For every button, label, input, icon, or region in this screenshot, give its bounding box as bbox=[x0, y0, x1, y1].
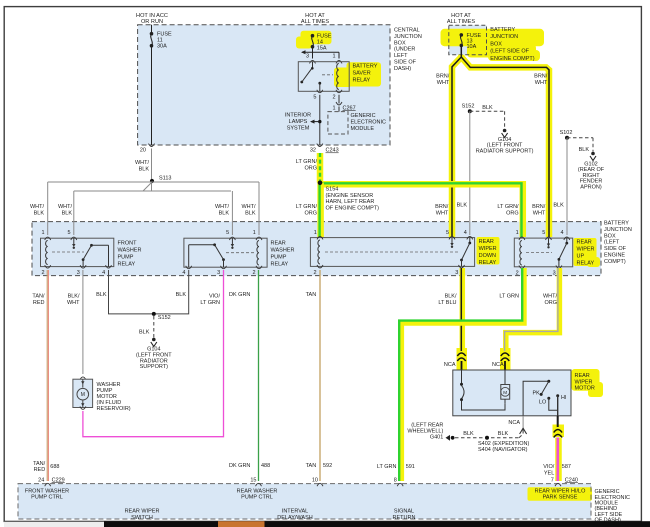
wire BLK dashed S152 to G104 bbox=[470, 110, 505, 112]
svg-text:LT GRN/: LT GRN/ bbox=[296, 204, 318, 210]
splice S154 bbox=[318, 181, 323, 186]
highlight over rear wiper hi/lo park sense label bbox=[528, 487, 593, 501]
wire into motor box (motor feed) bbox=[504, 361, 506, 370]
washer pump motor connector top bbox=[80, 377, 86, 380]
svg-text:S102: S102 bbox=[560, 130, 573, 136]
svg-text:OR RUN: OR RUN bbox=[141, 19, 163, 25]
battery saver relay coil bbox=[337, 64, 339, 90]
wire BLK/WHT front relay pin3 to washer motor bbox=[82, 270, 84, 374]
bottom taskbar black bar bbox=[104, 521, 650, 527]
svg-text:SUPPORT): SUPPORT) bbox=[140, 364, 168, 370]
relay K-rear-wiper-up box bbox=[514, 238, 572, 267]
svg-text:WHT/: WHT/ bbox=[135, 160, 150, 166]
svg-text:(UNDER: (UNDER bbox=[394, 47, 415, 53]
svg-text:RELAY: RELAY bbox=[577, 261, 595, 267]
NCA connector (vio/yel) bbox=[554, 430, 562, 433]
svg-text:UP: UP bbox=[577, 254, 585, 260]
svg-text:LT BLU: LT BLU bbox=[438, 300, 456, 306]
highlight over battery junction box label bbox=[441, 29, 545, 46]
svg-text:PUMP: PUMP bbox=[271, 255, 287, 261]
svg-text:VIO/: VIO/ bbox=[543, 464, 554, 470]
rear washer relay switch blade bbox=[215, 245, 224, 260]
wire LT GRN/ORG highlight (C243 to S154) bbox=[317, 153, 324, 183]
svg-text:C240: C240 bbox=[565, 477, 578, 483]
svg-text:BOX: BOX bbox=[490, 41, 502, 47]
wire fuse 11 to pin 20 bbox=[151, 46, 153, 145]
up relay actuator dashed link bbox=[526, 252, 552, 254]
up relay pin3 lead bbox=[558, 259, 560, 266]
svg-text:BLK: BLK bbox=[34, 210, 45, 216]
battery junction box fuse box fill bbox=[449, 25, 487, 55]
svg-text:592: 592 bbox=[323, 463, 332, 469]
relay K-battery-saver box bbox=[298, 62, 349, 92]
svg-text:BLK: BLK bbox=[482, 105, 493, 111]
relay band box fill bbox=[32, 222, 601, 276]
svg-text:688: 688 bbox=[50, 464, 59, 470]
svg-text:YEL: YEL bbox=[544, 470, 554, 476]
wire BRN/WHT core (right branch) bbox=[461, 57, 549, 237]
svg-text:WIPER: WIPER bbox=[575, 379, 593, 385]
svg-text:DK GRN: DK GRN bbox=[229, 463, 250, 469]
wire WHT/BLK upper branch bbox=[48, 181, 259, 183]
wire BLK/LT BLU highlight bbox=[460, 268, 466, 351]
svg-text:SIDE OF: SIDE OF bbox=[604, 246, 627, 252]
wire VIO/YEL highlight bbox=[555, 438, 562, 482]
svg-text:REAR WIPER HI/LO: REAR WIPER HI/LO bbox=[535, 488, 586, 494]
splice S113 bbox=[150, 179, 154, 183]
svg-text:M: M bbox=[503, 390, 507, 395]
wire rear wiper HI lead bbox=[557, 416, 559, 427]
svg-text:G401: G401 bbox=[430, 435, 443, 441]
svg-text:3: 3 bbox=[455, 270, 458, 276]
svg-text:OF DASH): OF DASH) bbox=[595, 517, 621, 523]
fuse F11 bbox=[150, 32, 154, 36]
wire BLK/LT BLU core bbox=[460, 268, 462, 351]
rear wiper motor M2 box bbox=[453, 370, 571, 416]
rear washer relay pin 3 bbox=[221, 266, 227, 269]
front relay pin 2 bbox=[45, 265, 51, 268]
svg-text:FRONT WASHER: FRONT WASHER bbox=[25, 488, 69, 494]
svg-text:PUMP CTRL: PUMP CTRL bbox=[31, 495, 63, 501]
front relay pin 4 bbox=[106, 265, 112, 268]
svg-text:BRN/: BRN/ bbox=[435, 204, 449, 210]
svg-text:WHT/: WHT/ bbox=[30, 204, 45, 210]
bottom taskbar orange segment bbox=[218, 521, 265, 527]
wire WHT/ORG highlight bbox=[506, 268, 560, 351]
wire WHT/ORG core bbox=[505, 268, 558, 351]
wire WHT/BLK to front relay pin 5 bbox=[73, 191, 75, 235]
svg-text:RADIATOR SUPPORT): RADIATOR SUPPORT) bbox=[476, 148, 534, 154]
svg-text:HOT AT: HOT AT bbox=[451, 13, 471, 19]
battery saver relay com lead bbox=[312, 62, 314, 68]
generic electronic module box (top, dashed) bbox=[328, 112, 348, 134]
svg-text:BLK: BLK bbox=[498, 431, 509, 437]
svg-text:NCA: NCA bbox=[444, 362, 456, 368]
down relay pin 2 bbox=[317, 265, 323, 268]
splice S402/S404 bbox=[485, 436, 489, 440]
svg-text:COMPT): COMPT) bbox=[604, 259, 626, 265]
battery saver relay pin 2 bbox=[336, 90, 342, 93]
svg-text:CENTRAL: CENTRAL bbox=[394, 28, 420, 34]
svg-text:SYSTEM: SYSTEM bbox=[287, 125, 310, 131]
svg-text:BLK: BLK bbox=[139, 329, 150, 335]
highlight over FUSE 14 bbox=[301, 31, 332, 44]
svg-text:ALL TIMES: ALL TIMES bbox=[301, 19, 330, 25]
front relay pin 3 bbox=[80, 265, 86, 268]
relay K-rear-wiper-down box bbox=[310, 238, 474, 267]
wire BLK dashed S102 to G102 bbox=[567, 137, 593, 139]
wire VIO/YEL core bbox=[556, 438, 559, 482]
fuse F13 bbox=[460, 33, 464, 37]
svg-text:ENGINE: ENGINE bbox=[604, 253, 625, 259]
down relay coil bbox=[318, 240, 320, 264]
svg-text:1: 1 bbox=[314, 230, 317, 236]
wire BRN/WHT core (left branch) bbox=[452, 45, 461, 237]
svg-text:LO: LO bbox=[539, 400, 546, 406]
svg-text:BATTERY: BATTERY bbox=[353, 63, 378, 69]
svg-text:TAN/: TAN/ bbox=[32, 294, 45, 300]
svg-text:WHT/: WHT/ bbox=[241, 204, 256, 210]
NCA connector (wht/org) bbox=[501, 353, 509, 356]
svg-text:4: 4 bbox=[464, 230, 467, 236]
svg-text:PK: PK bbox=[532, 391, 540, 397]
wire TAN down relay pin2 to GEM pin10 bbox=[319, 270, 321, 481]
svg-text:(LEFT: (LEFT bbox=[604, 240, 620, 246]
down relay pin4 lead bbox=[469, 238, 471, 243]
svg-text:DELAY/WASH: DELAY/WASH bbox=[277, 515, 312, 521]
svg-text:7: 7 bbox=[551, 477, 554, 483]
down relay pin5 contact feed bbox=[451, 238, 453, 244]
svg-text:10: 10 bbox=[312, 477, 318, 483]
svg-text:1: 1 bbox=[516, 230, 519, 236]
svg-text:HARN, LEFT REAR: HARN, LEFT REAR bbox=[326, 199, 375, 205]
svg-text:BLK/: BLK/ bbox=[445, 294, 457, 300]
wire LT GRN/ORG core to down relay pin1 bbox=[318, 183, 320, 238]
svg-text:DOWN: DOWN bbox=[479, 253, 496, 259]
splice S102 bbox=[565, 136, 569, 140]
highlight on NCA connector of blk/lt blu wire bbox=[457, 348, 468, 370]
relay K-rear-washer box bbox=[184, 238, 267, 267]
svg-text:(ENGINE SENSOR: (ENGINE SENSOR bbox=[326, 193, 374, 199]
svg-text:5: 5 bbox=[226, 230, 229, 236]
motor park contact lower lead bbox=[462, 401, 506, 410]
down relay pin 1 bbox=[317, 237, 323, 240]
wire C267 into GEM bbox=[338, 107, 340, 112]
svg-text:BRN/: BRN/ bbox=[534, 74, 548, 80]
svg-text:488: 488 bbox=[261, 463, 270, 469]
up relay pin4 lead bbox=[566, 238, 568, 243]
svg-text:BLK: BLK bbox=[62, 210, 73, 216]
wire BRN/WHT highlight (left branch) bbox=[452, 55, 461, 237]
washer pump motor leads bbox=[82, 379, 84, 387]
svg-text:2: 2 bbox=[516, 270, 519, 276]
svg-text:LAMPS: LAMPS bbox=[289, 119, 308, 125]
highlight over rear wiper up relay label bbox=[574, 238, 597, 266]
front relay contact to pin 4 bbox=[92, 244, 109, 246]
svg-text:RELAY: RELAY bbox=[271, 262, 289, 268]
svg-text:1: 1 bbox=[253, 230, 256, 236]
generic electronic module box border (bottom) bbox=[18, 484, 591, 519]
svg-text:DK GRN: DK GRN bbox=[229, 292, 250, 298]
svg-text:JUNCTION: JUNCTION bbox=[490, 34, 518, 40]
svg-text:SWITCH: SWITCH bbox=[131, 515, 153, 521]
svg-text:NCA: NCA bbox=[508, 420, 520, 426]
down relay pin 5 bbox=[449, 237, 455, 240]
highlight over rear wiper down relay label bbox=[477, 237, 500, 265]
svg-text:TAN/: TAN/ bbox=[33, 461, 46, 467]
wire LT GRN up relay pin2 to GEM pin8 highlight bbox=[402, 268, 525, 481]
svg-text:BRN/: BRN/ bbox=[436, 74, 450, 80]
wire LT GRN up relay pin2 to GEM pin8 core bbox=[399, 268, 522, 481]
wire BLK S152 to down relay pin 4 bbox=[469, 111, 471, 235]
splice S152 (lower) bbox=[152, 312, 156, 316]
battery saver relay pin 1 bbox=[336, 61, 342, 64]
svg-text:1: 1 bbox=[41, 230, 44, 236]
ground G401 bbox=[446, 435, 451, 441]
svg-text:ORG: ORG bbox=[544, 300, 557, 306]
svg-text:BLK/: BLK/ bbox=[68, 294, 80, 300]
svg-text:LT GRN/: LT GRN/ bbox=[296, 159, 318, 165]
up relay coil bbox=[520, 241, 522, 266]
svg-text:20: 20 bbox=[140, 148, 146, 154]
wire pin5 down to pin 32 bbox=[319, 95, 321, 145]
svg-text:INTERVAL: INTERVAL bbox=[282, 508, 308, 514]
svg-text:ORG: ORG bbox=[304, 165, 317, 171]
relay band box border bbox=[32, 222, 601, 276]
rear washer relay coil bbox=[257, 241, 259, 266]
wire pin2 to C267 bbox=[338, 95, 340, 104]
svg-text:2: 2 bbox=[313, 270, 316, 276]
svg-text:MOTOR: MOTOR bbox=[575, 386, 595, 392]
svg-text:OF ENGINE COMPT): OF ENGINE COMPT) bbox=[326, 205, 380, 211]
wire BLK S102 to up relay pin 4 bbox=[566, 138, 568, 235]
svg-text:5: 5 bbox=[446, 230, 449, 236]
splice S152 (engine harness) bbox=[468, 109, 472, 113]
svg-text:ALL TIMES: ALL TIMES bbox=[447, 19, 476, 25]
relay K-front-washer box bbox=[41, 238, 114, 266]
svg-text:S152: S152 bbox=[158, 315, 171, 321]
svg-text:4: 4 bbox=[561, 230, 564, 236]
svg-text:WIPER: WIPER bbox=[479, 246, 497, 252]
svg-text:WHT: WHT bbox=[533, 210, 546, 216]
svg-text:C243: C243 bbox=[326, 148, 339, 154]
arrow stub left of fuse 14 bbox=[302, 51, 339, 53]
motor HI contact bbox=[556, 394, 559, 397]
battery saver relay switch blade bbox=[300, 81, 303, 84]
svg-text:WHT: WHT bbox=[437, 80, 450, 86]
svg-text:INTERIOR: INTERIOR bbox=[285, 112, 311, 118]
svg-text:PUMP CTRL: PUMP CTRL bbox=[241, 495, 273, 501]
svg-text:S404 (NAVIGATOR): S404 (NAVIGATOR) bbox=[478, 447, 528, 453]
svg-text:SAVER: SAVER bbox=[353, 70, 371, 76]
up relay pin5 contact feed bbox=[548, 238, 550, 244]
wire WHT/BLK to front relay pin 1 bbox=[47, 182, 49, 235]
front relay actuator dashed link bbox=[52, 251, 84, 253]
svg-text:VIO/: VIO/ bbox=[209, 294, 220, 300]
front relay pin 3 lead bbox=[82, 260, 84, 267]
svg-text:S152: S152 bbox=[462, 104, 475, 110]
svg-text:BLK: BLK bbox=[96, 292, 107, 298]
wire WHT/BLK to rear washer relay pin 1 bbox=[258, 182, 260, 235]
wire DK GRN rear washer relay pin2 to GEM pin15 bbox=[258, 270, 260, 481]
up relay pin 3 bbox=[556, 265, 562, 268]
svg-text:HI: HI bbox=[561, 395, 566, 401]
washer pump motor connector bottom bbox=[80, 406, 86, 409]
svg-text:BATTERY: BATTERY bbox=[604, 221, 629, 227]
svg-text:S154: S154 bbox=[326, 187, 339, 193]
svg-text:DASH): DASH) bbox=[394, 66, 411, 72]
svg-text:WHT/: WHT/ bbox=[58, 204, 73, 210]
svg-text:WHT: WHT bbox=[67, 300, 80, 306]
svg-text:5: 5 bbox=[542, 230, 545, 236]
svg-text:10A: 10A bbox=[467, 44, 477, 50]
battery saver relay contact dot bbox=[318, 82, 321, 85]
highlight over rear wiper motor label bbox=[572, 369, 600, 391]
washer pump motor circle bbox=[77, 388, 89, 400]
svg-text:JUNCTION: JUNCTION bbox=[394, 34, 422, 40]
motor switch common lead bbox=[523, 381, 549, 416]
svg-text:LT GRN: LT GRN bbox=[200, 300, 220, 306]
svg-text:RESERVOIR): RESERVOIR) bbox=[97, 406, 131, 412]
wire to battery saver relay pin 1 bbox=[338, 52, 340, 58]
svg-text:BOX: BOX bbox=[604, 233, 616, 239]
svg-text:32: 32 bbox=[310, 148, 316, 154]
svg-text:C229: C229 bbox=[52, 477, 65, 483]
svg-text:LEFT: LEFT bbox=[394, 53, 408, 59]
svg-text:3: 3 bbox=[77, 270, 80, 276]
svg-text:REAR WASHER: REAR WASHER bbox=[237, 488, 278, 494]
svg-text:GENERIC: GENERIC bbox=[351, 113, 376, 119]
svg-text:5: 5 bbox=[67, 230, 70, 236]
svg-text:RED: RED bbox=[34, 467, 46, 473]
svg-text:4: 4 bbox=[182, 270, 185, 276]
wire BRN/WHT highlight (right branch) bbox=[461, 57, 549, 237]
svg-text:ORG: ORG bbox=[304, 210, 317, 216]
svg-text:WASHER: WASHER bbox=[118, 248, 142, 254]
down relay pin 4 bbox=[467, 237, 473, 240]
svg-text:WASHER: WASHER bbox=[271, 248, 295, 254]
svg-text:BLK: BLK bbox=[553, 203, 564, 209]
svg-text:FRONT: FRONT bbox=[118, 241, 138, 247]
svg-text:PUMP: PUMP bbox=[118, 255, 134, 261]
down relay switch blade bbox=[462, 243, 470, 260]
rear washer relay contact from pin 4 bbox=[188, 245, 190, 267]
svg-text:1: 1 bbox=[332, 54, 335, 60]
wire LT GRN/ORG highlight to down relay pin1 bbox=[317, 183, 324, 238]
svg-text:M: M bbox=[81, 392, 85, 398]
front relay coil bbox=[46, 241, 48, 265]
svg-text:30A: 30A bbox=[157, 43, 167, 49]
rear washer relay pin 2 bbox=[256, 266, 262, 269]
wire LT GRN/ORG highlight horizontal bbox=[320, 184, 523, 237]
svg-text:BATTERY: BATTERY bbox=[490, 27, 515, 33]
wire hot-in-acc feed into CJB bbox=[151, 25, 153, 34]
svg-text:WHEELWELL): WHEELWELL) bbox=[407, 428, 443, 434]
rear washer relay actuator dashed link bbox=[226, 252, 254, 254]
wire WHT/BLK pin20 to S113 bbox=[151, 149, 153, 192]
battery saver relay actuator dashed link bbox=[322, 74, 333, 76]
battery junction box fuse box border bbox=[449, 25, 487, 55]
svg-text:2: 2 bbox=[41, 270, 44, 276]
svg-text:PARK SENSE: PARK SENSE bbox=[543, 495, 578, 501]
svg-text:ORG: ORG bbox=[506, 210, 519, 216]
ground G104 (upper right) bbox=[503, 129, 507, 133]
svg-text:S113: S113 bbox=[159, 176, 171, 182]
wire into motor box (left) bbox=[461, 361, 463, 370]
motor switch blade to PK bbox=[541, 381, 549, 394]
ground G104 (lower) bbox=[152, 338, 156, 342]
rear washer relay pin 1 bbox=[256, 237, 262, 240]
rear washer relay pin 3 lead bbox=[223, 260, 225, 268]
svg-text:C267: C267 bbox=[343, 105, 356, 111]
svg-text:RETURN: RETURN bbox=[393, 515, 416, 521]
front relay pin 1 bbox=[45, 237, 51, 240]
up relay pin 4 bbox=[564, 237, 570, 240]
svg-text:WHT: WHT bbox=[436, 210, 449, 216]
central junction box border bbox=[138, 25, 390, 145]
highlight on NCA connector of vio/yel wire bbox=[553, 425, 565, 438]
svg-text:5: 5 bbox=[313, 94, 316, 100]
svg-text:BLK: BLK bbox=[219, 210, 230, 216]
svg-text:RED: RED bbox=[33, 300, 45, 306]
interior lamps system tap bbox=[318, 120, 321, 123]
svg-text:BOX: BOX bbox=[394, 40, 406, 46]
svg-text:WHT/: WHT/ bbox=[215, 204, 230, 210]
svg-text:TAN: TAN bbox=[306, 292, 317, 298]
battery saver relay pin 3 bbox=[310, 61, 316, 64]
front relay pin 5 bbox=[71, 237, 77, 240]
highlight on NCA connector of wht/org wire bbox=[500, 348, 511, 370]
svg-text:REAR: REAR bbox=[479, 239, 494, 245]
svg-text:WHT: WHT bbox=[535, 80, 548, 86]
rear washer relay pin 4 bbox=[186, 266, 192, 269]
wire WHT/BLK lower branch bbox=[74, 190, 231, 192]
up relay pin 2 bbox=[519, 265, 525, 268]
wire VIO/LT GRN washer motor to rear washer relay pin3 bbox=[83, 270, 224, 437]
wire fuse14 junction bbox=[312, 47, 314, 59]
svg-text:591: 591 bbox=[406, 464, 415, 470]
svg-text:8: 8 bbox=[394, 477, 397, 483]
central junction box fill bbox=[138, 25, 390, 145]
NCA arrow connector (park wire) bbox=[520, 428, 527, 434]
svg-text:SIDE OF: SIDE OF bbox=[394, 60, 417, 66]
bottom taskbar light segment bbox=[4, 522, 104, 527]
front relay pin5 contact feed bbox=[73, 238, 75, 244]
up relay switch blade bbox=[559, 243, 567, 259]
up relay pin 5 bbox=[546, 237, 552, 240]
svg-text:(LEFT SIDE OF: (LEFT SIDE OF bbox=[490, 49, 529, 55]
wire LT GRN/ORG core horizontal bbox=[320, 183, 522, 237]
svg-text:1: 1 bbox=[332, 105, 335, 111]
wire BLK dashed to G104 (lower) bbox=[153, 316, 155, 338]
rear washer relay pin 5 bbox=[229, 237, 235, 240]
svg-text:RELAY: RELAY bbox=[118, 262, 136, 268]
svg-text:2: 2 bbox=[333, 94, 336, 100]
rear washer relay pin5 contact feed bbox=[231, 238, 233, 244]
wire BLK front relay pin4 to S152 bbox=[109, 270, 189, 314]
svg-text:HOT IN ACC: HOT IN ACC bbox=[136, 13, 168, 19]
svg-text:APRON): APRON) bbox=[580, 184, 602, 190]
wire BLK dashed G401 to S402 bbox=[455, 437, 519, 439]
svg-text:WIPER: WIPER bbox=[577, 247, 595, 253]
motor park contact arc bbox=[461, 370, 463, 384]
svg-text:NCA: NCA bbox=[492, 362, 504, 368]
motor armature bbox=[504, 370, 506, 385]
svg-text:REAR: REAR bbox=[271, 241, 286, 247]
svg-text:REAR WIPER: REAR WIPER bbox=[125, 508, 160, 514]
svg-text:(LEFT REAR: (LEFT REAR bbox=[411, 422, 443, 428]
svg-text:BLK: BLK bbox=[245, 210, 256, 216]
